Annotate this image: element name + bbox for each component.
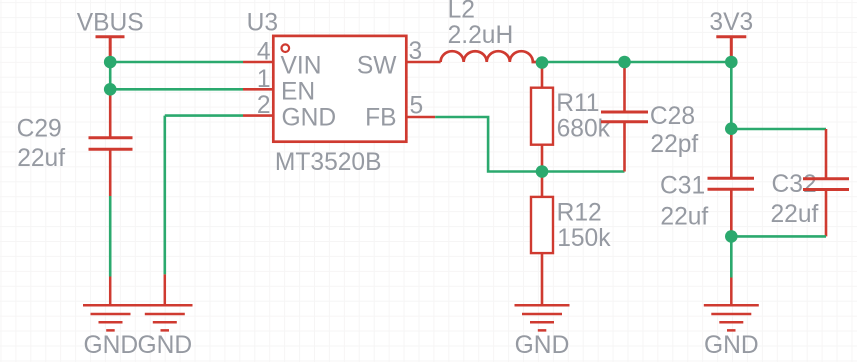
svg-text:MT3520B: MT3520B: [275, 149, 382, 176]
svg-text:3: 3: [409, 38, 423, 65]
svg-text:GND: GND: [704, 332, 759, 359]
wire GND pin vertical: [164, 116, 167, 275]
wire junction to C28 bottom: [542, 170, 625, 173]
junction dot: [725, 230, 738, 243]
svg-text:4: 4: [257, 39, 271, 66]
svg-text:22uf: 22uf: [771, 201, 819, 228]
junction dot: [725, 56, 738, 69]
capacitor C31: [708, 129, 755, 237]
svg-text:VIN: VIN: [281, 52, 322, 79]
U3 pin 4 (VIN): [243, 61, 273, 64]
svg-text:GND: GND: [137, 332, 192, 359]
svg-text:22uf: 22uf: [17, 145, 65, 172]
wire branch to C32: [731, 128, 826, 131]
capacitor C32: [803, 129, 849, 236]
inductor L2: [441, 51, 543, 62]
U3 pin 5 (FB): [406, 116, 435, 119]
junction dot: [536, 165, 549, 178]
junction dot: [104, 56, 117, 69]
junction dot: [725, 122, 738, 135]
svg-text:EN: EN: [281, 78, 315, 105]
IC U3 body: [273, 36, 406, 142]
wire to EN pin: [110, 88, 243, 91]
svg-text:GND: GND: [83, 332, 138, 359]
wire VBUS to VIN pin: [110, 61, 243, 64]
junction dot: [104, 83, 117, 96]
svg-text:3V3: 3V3: [709, 9, 753, 36]
wire VBUS vertical segment: [109, 62, 112, 89]
svg-text:22uf: 22uf: [660, 203, 708, 230]
power flag VBUS: [96, 37, 125, 62]
capacitor C29: [89, 89, 133, 196]
ground GND (output): [704, 278, 759, 331]
ground GND (U3 pin 2): [138, 274, 193, 330]
svg-text:2.2uH: 2.2uH: [448, 22, 514, 49]
svg-text:680k: 680k: [557, 115, 611, 142]
svg-text:5: 5: [410, 93, 424, 120]
ground GND (under R12): [515, 305, 570, 330]
ground GND (under C29): [83, 277, 138, 331]
junction dot: [618, 56, 631, 69]
wire C28 to 3V3: [625, 61, 732, 64]
svg-text:FB: FB: [365, 105, 396, 132]
svg-text:C31: C31: [660, 172, 705, 199]
svg-text:22pf: 22pf: [650, 131, 698, 158]
svg-text:SW: SW: [357, 52, 397, 79]
wire C32 bottom branch: [731, 235, 826, 238]
svg-text:C29: C29: [17, 115, 62, 142]
resistor R11: [531, 62, 553, 172]
svg-text:R11: R11: [556, 90, 599, 117]
svg-text:1: 1: [257, 66, 271, 93]
pin-1 indicator circle: [282, 44, 290, 52]
wire FB net: [435, 117, 542, 172]
U3 pin 3 (SW): [406, 61, 440, 64]
svg-text:U3: U3: [247, 9, 278, 36]
resistor R12: [531, 172, 553, 306]
junction dot: [536, 56, 549, 69]
power flag 3V3: [716, 37, 746, 62]
wire SW net to C28: [542, 61, 625, 64]
svg-text:C32: C32: [772, 171, 817, 198]
capacitor C28: [601, 62, 648, 172]
wire C29 to GND: [109, 196, 112, 277]
U3 pin 2 (GND): [243, 114, 273, 117]
wire GND pin horizontal: [165, 114, 243, 117]
wire C31 to GND: [730, 236, 733, 277]
svg-text:GND: GND: [515, 332, 570, 359]
svg-text:C28: C28: [650, 103, 695, 130]
svg-text:L2: L2: [448, 0, 475, 24]
svg-text:VBUS: VBUS: [77, 10, 144, 37]
svg-text:R12: R12: [557, 199, 602, 226]
svg-text:2: 2: [257, 92, 271, 119]
svg-text:GND: GND: [282, 105, 337, 132]
svg-text:150k: 150k: [557, 225, 611, 252]
wire 3V3 down to C31: [730, 62, 733, 129]
U3 pin 1 (EN): [243, 88, 273, 91]
